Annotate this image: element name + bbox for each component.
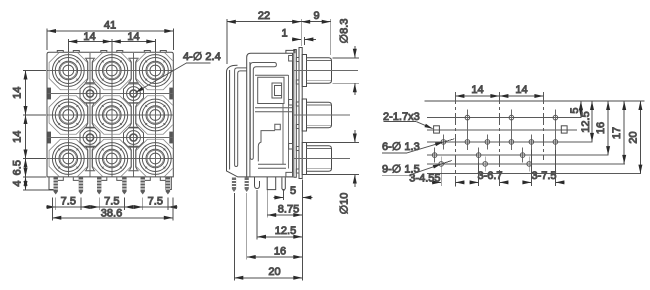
dim 7.5 pair1 [46,206,90,208]
svg-text:17: 17 [611,127,623,139]
small hole jack top-left [80,84,100,103]
dim 9 line [301,21,331,23]
dim 14/14 extension lines top [68,39,155,52]
inner wall verticals [283,75,289,168]
svg-text:8.75: 8.75 [278,204,299,216]
grid centerlines horizontal [48,71,174,159]
jack row2 centerline [294,114,350,116]
side edge tabs (filled) [47,88,173,144]
left dim line 14 upper [25,71,27,116]
right dim line 5 [580,101,582,118]
cavity box row1 [258,77,284,103]
row2 hole 4 [509,140,514,145]
dim 16 line [247,256,303,258]
dim 7.5 pair3 [133,206,177,208]
right dim line 12.5 [591,101,593,142]
dim 1 arrows [292,38,301,40]
jack cylinder row2 base ring [302,99,306,131]
jack cylinder row2 [307,102,332,127]
svg-text:12.5: 12.5 [580,111,592,132]
mounting bracket [227,65,247,177]
dim 41 extension lines [47,29,173,51]
jack cylinder row1 base ring [302,55,306,87]
footprint top edge line [425,100,645,102]
jack row2 inner lines [307,105,332,125]
row4 hole 1 [439,162,444,167]
right dim line 17 [623,101,625,164]
row2 hole 3 [485,140,490,145]
jack B2 [96,99,128,131]
dim 14 top right line [112,41,156,43]
svg-text:38.6: 38.6 [101,207,122,219]
svg-text:∅10: ∅10 [339,193,351,215]
dim 7.5 pair2 [90,206,134,208]
jack B3 [139,99,171,131]
dim 38.6 extension lines [52,198,173,221]
dim 3-6.7 extension lines [479,163,500,187]
footprint row1 line [427,117,582,119]
top latch tab [286,50,295,53]
corner tab left [49,177,55,190]
svg-text:3-6.7: 3-6.7 [477,170,502,182]
svg-text:12.5: 12.5 [275,225,296,237]
dim 9 extension line [330,19,332,55]
slot right (1.7x3) [561,126,567,133]
footprint bottom line [427,173,641,175]
cavity step contour row2 [258,131,275,162]
row3 hole 3 [520,153,525,158]
label 4-d2.4 leader [136,63,187,92]
lower shelf lines [258,164,286,168]
svg-text:7.5: 7.5 [61,196,76,208]
svg-text:4-∅ 2.4: 4-∅ 2.4 [183,51,221,63]
jack A3 [139,55,171,87]
side pin 5 [282,178,285,191]
row1 hole 2 [509,115,514,120]
label 6-d1.3 leader [407,142,443,153]
left dim line 4 [25,177,27,190]
dim 3-4.55 arrows [432,181,441,183]
flange plate B (1mm panel) [299,48,302,179]
left dim line 14 lower [25,115,27,159]
left dims extension lines [23,71,56,191]
flange plate A [294,50,297,178]
label 2-1.7x3 leader [416,122,432,129]
inner shelf line [255,74,288,76]
svg-text:∅8.3: ∅8.3 [339,19,351,44]
dim 8.75 line [267,214,302,216]
footprint row4 line [427,163,625,165]
small hole jack bottom-left [80,128,100,147]
dim d10 arrows [354,130,356,143]
right dim line 16 [607,101,609,155]
jack B1 [52,99,84,131]
dim 1 extension line [303,37,305,45]
footprint row3 line [427,154,609,156]
jack cylinder row3 [307,146,332,171]
dim 3-4.55 extension lines [441,171,455,186]
row1 hole 3 [553,115,558,120]
svg-text:1: 1 [281,28,287,40]
svg-text:16: 16 [274,245,286,257]
wall latch rects [289,56,293,150]
column centerline c3 [542,92,544,160]
svg-text:5: 5 [290,185,296,197]
bowtie joints between cells [85,58,139,171]
label 2-1.7x3 underline [384,121,417,123]
side pin 2 [245,178,249,193]
side body inner wall line [249,62,251,177]
jack C2 [96,143,128,175]
row2 hole 1 [441,140,446,145]
footprint slot row line [427,129,577,131]
dim d8.3 arrows [354,46,356,58]
small contact block row2 [275,124,281,130]
dim 14/14 footprint lines [455,95,499,97]
jack row1 centerline [294,70,358,72]
grid centerlines vertical [68,53,155,177]
body outline front [47,52,173,177]
svg-text:3-4.55: 3-4.55 [409,172,440,184]
side body outer shell [247,53,293,177]
small hole jack top-right [124,84,144,103]
footprint row2 line [427,141,593,143]
label 9-d1.5 underline [382,174,409,176]
jack cylinder row1 [307,58,332,83]
svg-text:7.5: 7.5 [104,196,119,208]
spring contact loop 1 [235,68,247,167]
svg-text:14: 14 [471,84,483,96]
dim 14 top left line [68,41,112,43]
svg-text:7.5: 7.5 [148,196,163,208]
svg-text:16: 16 [595,122,607,134]
svg-text:3-7.5: 3-7.5 [531,170,556,182]
svg-text:9: 9 [313,10,319,22]
row4 hole 3 [527,162,532,167]
left dim line 6.5 [25,159,27,177]
svg-text:20: 20 [268,266,280,278]
bottom step block [286,172,293,177]
dim 20 line [234,277,302,279]
mounting peg [267,177,276,190]
small hole jack bottom-right [124,128,144,147]
jack C1 [52,143,84,175]
pins front (hatched) [54,177,171,195]
top edge bumps [57,51,166,53]
row4 hole 2 [483,162,488,167]
right dim line 20 [639,101,641,174]
jack row3 inner lines [307,148,332,168]
dim 12.5 line [257,236,302,238]
svg-text:14: 14 [12,87,24,99]
dim 3-7.5 arrows [522,181,531,183]
jack row1 inner lines [307,60,332,80]
jack C3 [139,143,171,175]
row2 hole 6 [553,140,558,145]
svg-text:14: 14 [83,31,95,43]
flange nubs [296,58,299,174]
dim d8.3 extension lines [333,58,360,83]
hole vertical tick lines [435,110,556,172]
cell housing outlines [49,51,174,177]
column centerline c2 [498,92,500,184]
dim 41 line [47,30,173,32]
svg-text:41: 41 [104,20,116,32]
svg-text:14: 14 [515,84,527,96]
label 9-d1.5 leader [409,164,441,175]
row2 hole 5 [529,140,534,145]
svg-text:22: 22 [258,10,270,22]
svg-text:14: 14 [12,131,24,143]
cavity box row1 inner contact [272,83,282,98]
side pin 3 hook [255,177,260,189]
bottom 7.5 extension lines [56,198,168,210]
jack row3 centerline [294,158,350,160]
row2 hole 2 [465,140,470,145]
dim 22 line [227,21,301,23]
bottom edge teeth [57,177,166,180]
row1 hole 1 [465,115,470,120]
dim 38.6 line [52,217,173,219]
label 4-d2.4 leader underline [186,62,210,64]
spring contact loop 2 (hairpin with finger) [250,63,276,160]
side pin 1 [232,178,236,193]
corner tab right [166,177,172,190]
jack cylinder row3 base ring [302,143,306,175]
side bottom extension lines [234,180,302,281]
svg-text:4: 4 [12,180,24,186]
dim 3-7.5 extension lines [531,149,555,186]
svg-text:20: 20 [627,131,639,143]
dim 3-6.7 arrows [470,181,479,183]
mid shelf lines [255,108,293,112]
row3 hole 1 [432,153,437,158]
dim 22 extension lines [227,19,301,64]
dim d10 extension lines [306,143,359,175]
jack A1 [52,55,84,87]
row3 hole 2 [476,153,481,158]
svg-text:6.5: 6.5 [12,160,24,175]
jack A2 [96,55,128,87]
column centerline c1 [454,92,456,187]
dim 5 arrows [273,197,283,199]
slot left (1.7x3) [434,126,440,133]
svg-text:14: 14 [127,31,139,43]
label 6-d1.3 underline [382,152,407,154]
